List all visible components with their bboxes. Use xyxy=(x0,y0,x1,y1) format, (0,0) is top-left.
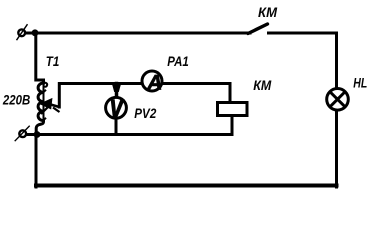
lamp HL xyxy=(327,89,349,111)
svg-text:220В: 220В xyxy=(2,92,30,108)
voltmeter PV2 xyxy=(106,95,127,123)
T1 tap arrow xyxy=(41,99,60,114)
svg-text:T1: T1 xyxy=(46,53,60,69)
svg-text:КМ: КМ xyxy=(258,4,277,20)
wire left vertical (bottom rail up to lower input wire) xyxy=(35,135,38,188)
T1 winding spine xyxy=(43,81,45,121)
junction dot (bottom input node) xyxy=(34,131,41,138)
terminal X2 (bottom input clamp) xyxy=(15,126,30,142)
transformer T1 winding xyxy=(36,33,44,135)
wire measurement rail (tap corner to KM coil corner) xyxy=(59,84,230,108)
T1 winding loop crossings xyxy=(43,83,47,121)
ammeter PA1 xyxy=(142,71,162,94)
wire top rail left (terminal to switch) xyxy=(25,32,250,35)
wire bottom rail xyxy=(36,184,337,188)
wire lamp bottom to bottom rail xyxy=(335,109,338,187)
wire KM coil bottom lead xyxy=(231,117,234,135)
svg-text:PV2: PV2 xyxy=(134,105,156,121)
svg-text:HL: HL xyxy=(353,75,367,91)
switch KM contact blade xyxy=(248,24,268,34)
junction dot (voltmeter tap on rail) xyxy=(112,84,121,92)
svg-text:V: V xyxy=(110,95,125,123)
wire lower input rail xyxy=(27,133,233,136)
svg-text:КМ: КМ xyxy=(253,77,271,93)
contactor coil KM xyxy=(218,103,248,116)
wire voltmeter top stub xyxy=(115,84,119,98)
wire voltmeter bottom lead xyxy=(115,119,118,135)
svg-text:PA1: PA1 xyxy=(167,53,189,69)
wire right vertical (corner to lamp) xyxy=(335,33,338,90)
terminal X1 (top input clamp) xyxy=(17,24,28,40)
junction dot (top input node) xyxy=(32,29,39,36)
wire top rail right (switch to corner) xyxy=(269,32,337,35)
svg-text:A: A xyxy=(146,71,162,94)
